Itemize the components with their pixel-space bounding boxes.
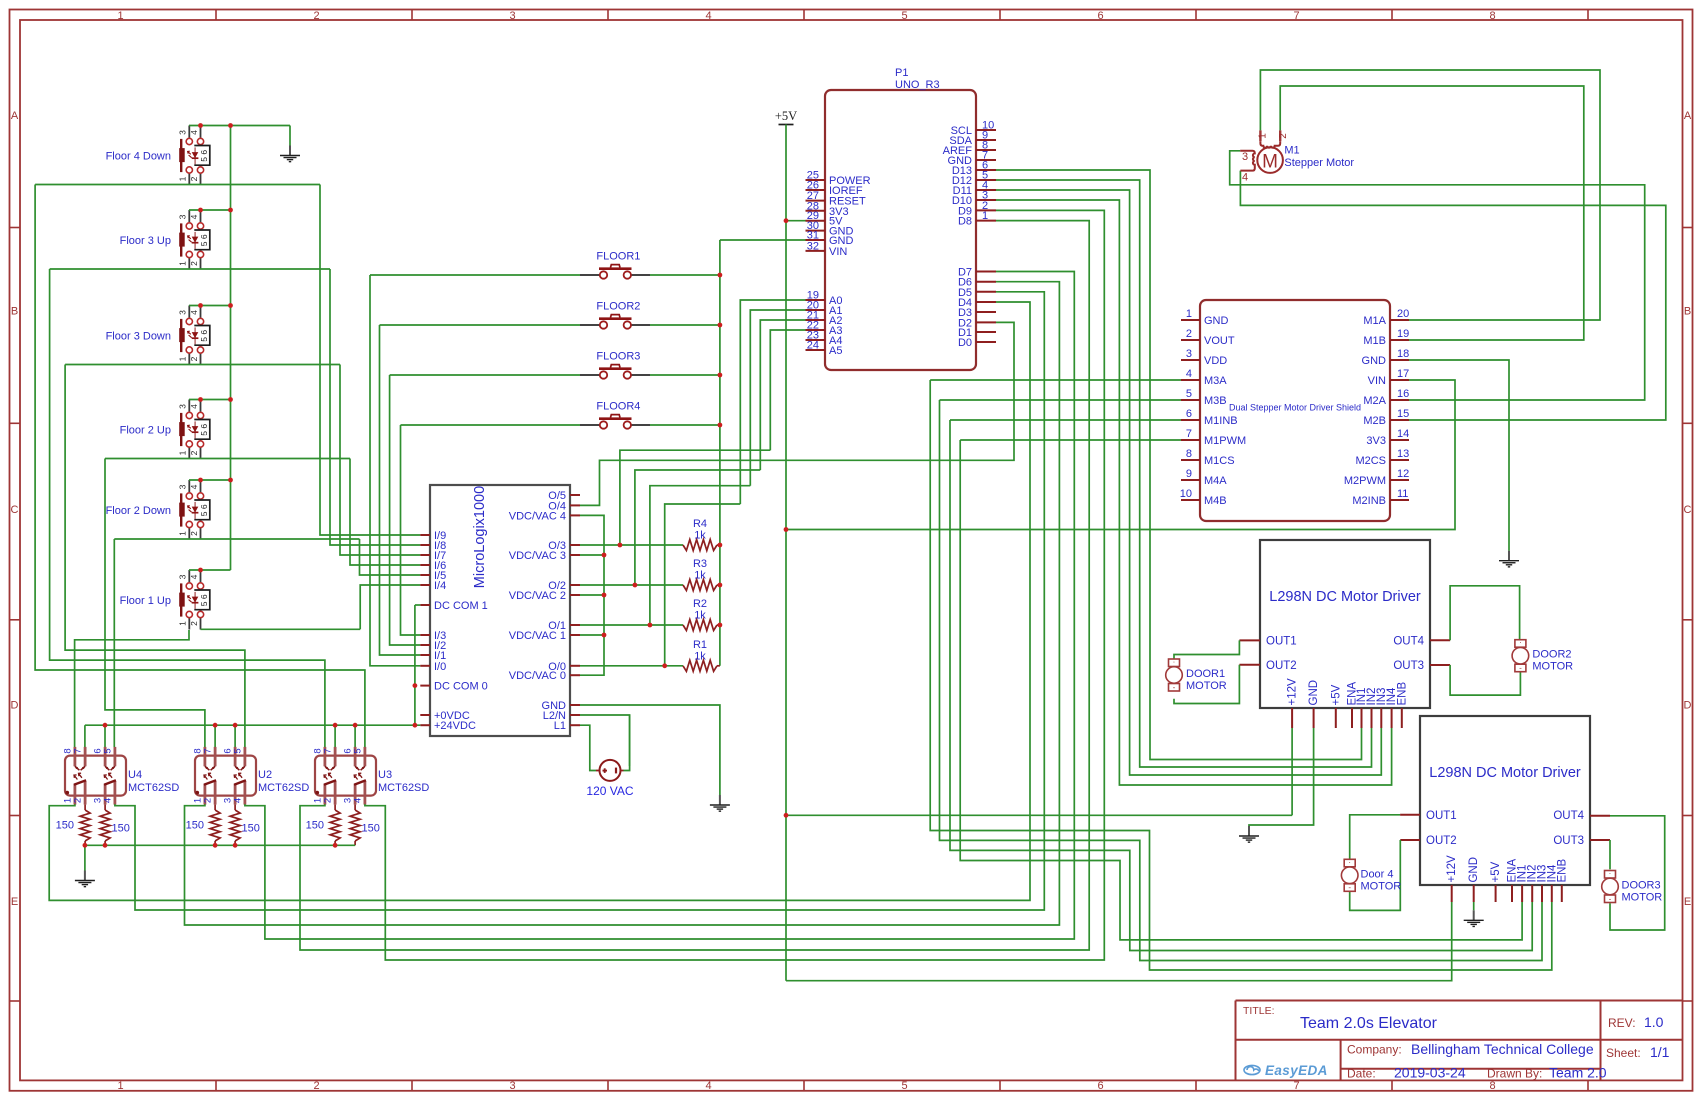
svg-text:5: 5 xyxy=(102,748,113,753)
svg-text:VDC/VAC 1: VDC/VAC 1 xyxy=(509,630,566,642)
svg-text:1/1: 1/1 xyxy=(1650,1044,1670,1060)
svg-text:7: 7 xyxy=(1186,428,1192,440)
svg-text:D0: D0 xyxy=(958,337,972,349)
svg-text:R2: R2 xyxy=(693,598,707,610)
svg-text:120 VAC: 120 VAC xyxy=(586,784,633,798)
svg-text:DOOR3: DOOR3 xyxy=(1622,880,1661,892)
svg-text:M1A: M1A xyxy=(1363,315,1386,327)
svg-text:14: 14 xyxy=(1397,428,1409,440)
svg-text:+24VDC: +24VDC xyxy=(434,720,476,732)
svg-text:1: 1 xyxy=(177,621,187,626)
svg-text:19: 19 xyxy=(1397,328,1409,340)
svg-text:3: 3 xyxy=(177,310,187,315)
svg-text:M3A: M3A xyxy=(1204,375,1227,387)
svg-text:·: · xyxy=(1173,658,1176,667)
svg-text:Company:: Company: xyxy=(1347,1043,1402,1057)
svg-text:2: 2 xyxy=(189,450,199,455)
svg-text:E: E xyxy=(1684,896,1691,908)
svg-text:OUT2: OUT2 xyxy=(1426,835,1457,847)
svg-text:3: 3 xyxy=(177,574,187,579)
svg-text:5: 5 xyxy=(199,601,209,606)
svg-text:VOUT: VOUT xyxy=(1204,335,1235,347)
svg-text:+12V: +12V xyxy=(1287,678,1299,706)
svg-text:2: 2 xyxy=(314,1080,320,1092)
svg-text:GND: GND xyxy=(1468,857,1480,883)
svg-text:1k: 1k xyxy=(694,650,706,662)
svg-text:4: 4 xyxy=(189,404,199,409)
svg-text:VIN: VIN xyxy=(829,246,847,258)
svg-text:4: 4 xyxy=(232,798,243,803)
svg-text:1: 1 xyxy=(177,356,187,361)
svg-text:7: 7 xyxy=(73,748,84,753)
svg-text:8: 8 xyxy=(1490,10,1496,22)
svg-text:2019-03-24: 2019-03-24 xyxy=(1394,1065,1466,1081)
svg-text:Floor 3 Up: Floor 3 Up xyxy=(120,235,171,247)
svg-text:18: 18 xyxy=(1397,348,1409,360)
svg-text:5: 5 xyxy=(902,10,908,22)
svg-text:15: 15 xyxy=(1397,408,1409,420)
svg-text:FLOOR2: FLOOR2 xyxy=(596,301,640,313)
svg-text:7: 7 xyxy=(203,748,214,753)
svg-text:U3: U3 xyxy=(378,769,392,781)
svg-text:2: 2 xyxy=(203,798,214,803)
svg-text:I/4: I/4 xyxy=(434,580,446,592)
svg-text:5: 5 xyxy=(199,241,209,246)
svg-text:5: 5 xyxy=(199,511,209,516)
svg-text:17: 17 xyxy=(1397,368,1409,380)
svg-text:MicroLogix1000: MicroLogix1000 xyxy=(472,486,488,588)
svg-text:Team 2.0s Elevator: Team 2.0s Elevator xyxy=(1300,1015,1438,1032)
svg-text:4: 4 xyxy=(1242,172,1248,184)
svg-text:3: 3 xyxy=(177,130,187,135)
svg-text:REV:: REV: xyxy=(1608,1016,1636,1030)
svg-text:4: 4 xyxy=(706,1080,712,1092)
svg-text:-: - xyxy=(1519,664,1522,673)
svg-text:8: 8 xyxy=(1186,448,1192,460)
svg-text:M1: M1 xyxy=(1284,145,1299,157)
svg-text:A: A xyxy=(11,110,19,122)
svg-text:ENB: ENB xyxy=(1396,682,1408,706)
svg-text:4: 4 xyxy=(102,798,113,803)
svg-text:L298N DC Motor Driver: L298N DC Motor Driver xyxy=(1269,589,1421,605)
svg-text:Floor 1 Up: Floor 1 Up xyxy=(120,595,171,607)
svg-text:L298N DC Motor Driver: L298N DC Motor Driver xyxy=(1429,765,1581,781)
svg-text:P1: P1 xyxy=(895,67,908,79)
svg-text:6: 6 xyxy=(199,594,209,599)
svg-text:OUT4: OUT4 xyxy=(1553,810,1584,822)
svg-text:32: 32 xyxy=(807,240,819,252)
svg-text:2: 2 xyxy=(189,356,199,361)
svg-text:1: 1 xyxy=(982,210,988,222)
svg-text:7: 7 xyxy=(323,748,334,753)
svg-text:2: 2 xyxy=(314,10,320,22)
svg-text:R1: R1 xyxy=(693,639,707,651)
svg-text:ENB: ENB xyxy=(1556,859,1568,883)
svg-text:3: 3 xyxy=(510,1080,516,1092)
svg-text:1k: 1k xyxy=(694,570,706,582)
svg-text:-: - xyxy=(1348,883,1351,892)
svg-text:VDC/VAC 0: VDC/VAC 0 xyxy=(509,670,566,682)
svg-text:Sheet:: Sheet: xyxy=(1606,1046,1641,1060)
svg-text:3: 3 xyxy=(1242,151,1248,163)
svg-text:D: D xyxy=(11,700,19,712)
svg-text:3: 3 xyxy=(177,214,187,219)
svg-text:1: 1 xyxy=(1186,308,1192,320)
svg-text:150: 150 xyxy=(306,820,324,832)
svg-text:9: 9 xyxy=(1186,468,1192,480)
svg-text:M1INB: M1INB xyxy=(1204,415,1238,427)
svg-text:GND: GND xyxy=(1308,680,1320,706)
svg-text:OUT2: OUT2 xyxy=(1266,660,1297,672)
svg-text:M: M xyxy=(1262,151,1278,172)
svg-text:1: 1 xyxy=(118,10,124,22)
svg-text:10: 10 xyxy=(1180,488,1192,500)
svg-text:OUT3: OUT3 xyxy=(1393,660,1424,672)
svg-text:I/0: I/0 xyxy=(434,661,446,673)
svg-text:2: 2 xyxy=(1186,328,1192,340)
svg-text:UNO_R3: UNO_R3 xyxy=(895,79,940,91)
svg-text:MOTOR: MOTOR xyxy=(1532,661,1573,673)
svg-text:M4B: M4B xyxy=(1204,495,1227,507)
svg-text:150: 150 xyxy=(186,820,204,832)
svg-text:3: 3 xyxy=(1186,348,1192,360)
svg-text:FLOOR4: FLOOR4 xyxy=(596,401,640,413)
svg-text:A5: A5 xyxy=(829,345,842,357)
svg-text:3: 3 xyxy=(177,484,187,489)
svg-text:-: - xyxy=(1609,894,1612,903)
svg-text:Floor 3 Down: Floor 3 Down xyxy=(106,331,171,343)
svg-text:6: 6 xyxy=(199,150,209,155)
svg-text:TITLE:: TITLE: xyxy=(1243,1005,1275,1017)
svg-text:GND: GND xyxy=(1204,315,1229,327)
svg-text:M1PWM: M1PWM xyxy=(1204,435,1246,447)
svg-text:Door 4: Door 4 xyxy=(1361,868,1394,880)
svg-text:OUT3: OUT3 xyxy=(1553,835,1584,847)
svg-text:Date:: Date: xyxy=(1347,1067,1376,1081)
svg-text:M2B: M2B xyxy=(1363,415,1386,427)
svg-text:Floor 2 Down: Floor 2 Down xyxy=(106,505,171,517)
svg-text:MOTOR: MOTOR xyxy=(1186,680,1227,692)
svg-text:Bellingham Technical College: Bellingham Technical College xyxy=(1411,1041,1594,1057)
svg-text:DOOR2: DOOR2 xyxy=(1532,649,1571,661)
svg-text:2: 2 xyxy=(189,176,199,181)
svg-text:VDC/VAC 2: VDC/VAC 2 xyxy=(509,590,566,602)
svg-text:4: 4 xyxy=(189,310,199,315)
svg-text:2: 2 xyxy=(189,261,199,266)
svg-text:6: 6 xyxy=(199,504,209,509)
svg-text:M2CS: M2CS xyxy=(1355,455,1386,467)
svg-text:5: 5 xyxy=(199,431,209,436)
svg-text:D8: D8 xyxy=(958,216,972,228)
svg-text:12: 12 xyxy=(1397,468,1409,480)
svg-text:16: 16 xyxy=(1397,388,1409,400)
svg-text:MOTOR: MOTOR xyxy=(1622,892,1663,904)
svg-text:EasyEDA: EasyEDA xyxy=(1265,1063,1328,1078)
svg-text:2: 2 xyxy=(189,531,199,536)
svg-text:M2PWM: M2PWM xyxy=(1344,475,1386,487)
svg-text:B: B xyxy=(11,306,18,318)
svg-text:D: D xyxy=(1684,700,1692,712)
svg-text:E: E xyxy=(11,896,18,908)
svg-text:OUT1: OUT1 xyxy=(1266,635,1297,647)
svg-text:·: · xyxy=(1348,858,1351,867)
svg-text:150: 150 xyxy=(362,823,380,835)
svg-text:20: 20 xyxy=(1397,308,1409,320)
svg-text:1k: 1k xyxy=(694,610,706,622)
svg-text:GND: GND xyxy=(1362,355,1387,367)
svg-text:1.0: 1.0 xyxy=(1644,1014,1664,1030)
svg-text:150: 150 xyxy=(112,823,130,835)
svg-text:6: 6 xyxy=(1098,1080,1104,1092)
svg-text:2: 2 xyxy=(189,621,199,626)
svg-text:7: 7 xyxy=(1294,1080,1300,1092)
svg-text:DC COM 0: DC COM 0 xyxy=(434,681,488,693)
svg-text:1: 1 xyxy=(118,1080,124,1092)
svg-text:Team 2.0: Team 2.0 xyxy=(1549,1065,1607,1081)
svg-text:2: 2 xyxy=(323,798,334,803)
svg-text:A: A xyxy=(1684,110,1692,122)
svg-text:8: 8 xyxy=(1490,1080,1496,1092)
svg-text:R3: R3 xyxy=(693,558,707,570)
svg-text:1: 1 xyxy=(177,261,187,266)
svg-text:DC COM 1: DC COM 1 xyxy=(434,600,488,612)
svg-text:6: 6 xyxy=(199,330,209,335)
svg-text:+5V: +5V xyxy=(1490,861,1502,882)
svg-text:Drawn By:: Drawn By: xyxy=(1487,1067,1542,1081)
svg-text:3: 3 xyxy=(510,10,516,22)
svg-text:4: 4 xyxy=(706,10,712,22)
svg-text:·: · xyxy=(1609,869,1612,878)
svg-text:OUT4: OUT4 xyxy=(1393,635,1424,647)
svg-text:MCT62SD: MCT62SD xyxy=(258,782,309,794)
svg-text:13: 13 xyxy=(1397,448,1409,460)
svg-text:+5V: +5V xyxy=(1330,684,1342,705)
svg-text:FLOOR1: FLOOR1 xyxy=(596,251,640,263)
svg-text:24: 24 xyxy=(807,340,819,352)
svg-text:MCT62SD: MCT62SD xyxy=(378,782,429,794)
svg-text:C: C xyxy=(1684,504,1692,516)
svg-text:U4: U4 xyxy=(128,769,142,781)
svg-text:R4: R4 xyxy=(693,518,707,530)
svg-text:MCT62SD: MCT62SD xyxy=(128,782,179,794)
svg-text:Floor 4 Down: Floor 4 Down xyxy=(106,151,171,163)
svg-text:·: · xyxy=(1519,638,1522,647)
svg-text:3: 3 xyxy=(177,404,187,409)
svg-text:M2A: M2A xyxy=(1363,395,1386,407)
svg-text:3V3: 3V3 xyxy=(1366,435,1386,447)
svg-text:L1: L1 xyxy=(554,720,566,732)
svg-text:1: 1 xyxy=(177,176,187,181)
svg-text:+12V: +12V xyxy=(1446,855,1458,883)
svg-text:2: 2 xyxy=(1278,133,1289,139)
svg-text:OUT1: OUT1 xyxy=(1426,810,1457,822)
svg-text:VDD: VDD xyxy=(1204,355,1227,367)
svg-text:M1B: M1B xyxy=(1363,335,1386,347)
svg-text:11: 11 xyxy=(1397,488,1408,500)
svg-text:1: 1 xyxy=(177,450,187,455)
svg-text:C: C xyxy=(11,504,19,516)
svg-text:4: 4 xyxy=(1186,368,1192,380)
svg-text:M4A: M4A xyxy=(1204,475,1227,487)
svg-text:5: 5 xyxy=(232,748,243,753)
svg-text:4: 4 xyxy=(189,484,199,489)
svg-text:4: 4 xyxy=(189,574,199,579)
svg-text:DOOR1: DOOR1 xyxy=(1186,668,1225,680)
svg-text:MOTOR: MOTOR xyxy=(1361,880,1402,892)
svg-text:VDC/VAC 4: VDC/VAC 4 xyxy=(509,510,566,522)
svg-text:B: B xyxy=(1684,306,1691,318)
svg-text:6: 6 xyxy=(199,234,209,239)
svg-text:4: 4 xyxy=(189,214,199,219)
svg-text:Stepper Motor: Stepper Motor xyxy=(1284,157,1354,169)
svg-text:5: 5 xyxy=(1186,388,1192,400)
svg-text:VDC/VAC 3: VDC/VAC 3 xyxy=(509,550,566,562)
svg-text:-: - xyxy=(1173,683,1176,692)
svg-text:150: 150 xyxy=(242,823,260,835)
svg-text:U2: U2 xyxy=(258,769,272,781)
svg-text:6: 6 xyxy=(1098,10,1104,22)
svg-text:5: 5 xyxy=(199,157,209,162)
svg-text:7: 7 xyxy=(1294,10,1300,22)
svg-text:VIN: VIN xyxy=(1368,375,1386,387)
svg-text:4: 4 xyxy=(352,798,363,803)
svg-text:5: 5 xyxy=(199,337,209,342)
svg-text:M3B: M3B xyxy=(1204,395,1227,407)
svg-text:4: 4 xyxy=(189,130,199,135)
svg-text:Dual Stepper Motor Driver Shie: Dual Stepper Motor Driver Shield xyxy=(1229,403,1361,413)
svg-text:6: 6 xyxy=(1186,408,1192,420)
svg-text:1: 1 xyxy=(177,531,187,536)
svg-text:6: 6 xyxy=(199,424,209,429)
svg-text:Floor 2 Up: Floor 2 Up xyxy=(120,425,171,437)
svg-text:1: 1 xyxy=(1258,133,1269,139)
svg-text:FLOOR3: FLOOR3 xyxy=(596,351,640,363)
svg-text:1k: 1k xyxy=(694,530,706,542)
svg-text:5: 5 xyxy=(352,748,363,753)
svg-text:2: 2 xyxy=(73,798,84,803)
svg-text:150: 150 xyxy=(56,820,74,832)
svg-text:M2INB: M2INB xyxy=(1352,495,1386,507)
svg-text:+5V: +5V xyxy=(775,109,797,123)
svg-text:M1CS: M1CS xyxy=(1204,455,1235,467)
svg-text:5: 5 xyxy=(902,1080,908,1092)
